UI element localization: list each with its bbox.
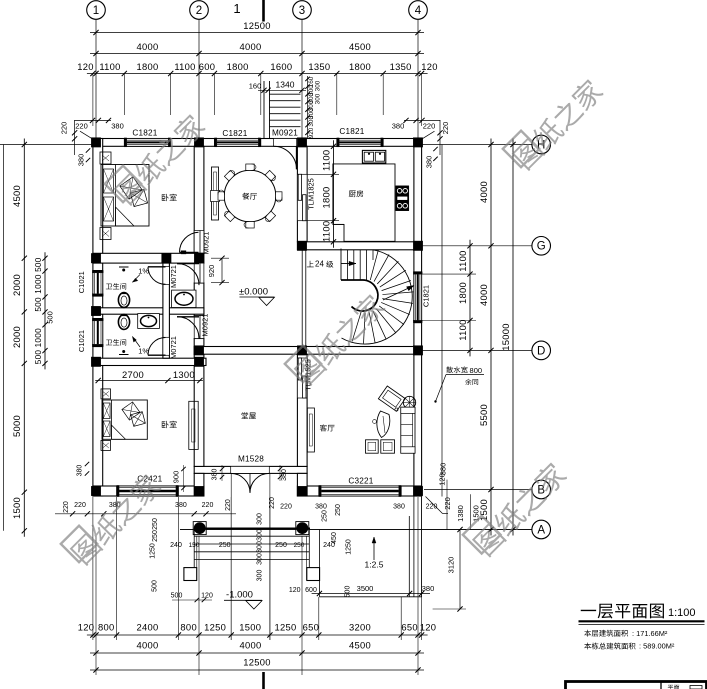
svg-text:1100: 1100 [174,61,195,72]
door M0721 bath2 [163,337,170,355]
stair break line [383,286,414,301]
title first floor plan [581,604,664,619]
svg-text:1600: 1600 [270,61,292,72]
window C1021 bath2 left [93,318,103,346]
svg-text:G: G [537,241,546,253]
svg-text:C1821: C1821 [422,285,431,307]
svg-text:300: 300 [257,541,264,553]
svg-text:1800: 1800 [349,61,371,72]
svg-text:380: 380 [77,465,84,477]
svg-text:220: 220 [423,121,436,130]
toilet bath2 [118,315,129,330]
svg-text:1100: 1100 [320,150,331,171]
kitchen sink [362,150,385,163]
dim row top detail [87,73,428,75]
bottom extension lines [95,536,97,675]
window C1821 dining top [214,139,260,147]
svg-text:4500: 4500 [11,185,22,207]
svg-text:250: 250 [335,504,342,516]
svg-text:220: 220 [443,497,452,510]
svg-text:300: 300 [257,513,264,525]
svg-text:120: 120 [201,592,213,599]
svg-text:120: 120 [420,622,437,633]
apron line right [441,145,443,497]
wall D hall/living top [194,347,421,355]
svg-text:1500: 1500 [239,622,261,633]
washbasin bath2 [138,314,160,329]
svg-text:300: 300 [257,553,264,565]
svg-text:300: 300 [308,116,315,127]
svg-text:1340: 1340 [276,80,295,90]
wall bath vertical partition [163,263,170,358]
right corner offset dims 380 220 [404,119,440,121]
svg-text:M1528: M1528 [238,455,264,464]
svg-text:4000: 4000 [136,640,158,651]
svg-text:2000: 2000 [11,274,22,296]
svg-text:300: 300 [257,570,264,582]
svg-text:1350: 1350 [308,61,330,72]
svg-text:3: 3 [299,5,305,17]
porch column bases [184,568,197,581]
footer table partial [566,682,707,689]
svg-text:240: 240 [170,542,182,549]
ramp arrow 1:2.5 [373,537,375,560]
sofa set living room [366,386,416,453]
svg-text:120: 120 [77,61,94,72]
window C1821 stair right [414,272,422,323]
right dim chain 15000 [512,139,514,536]
porch dims row 220 380 [55,513,236,515]
svg-text:450: 450 [331,532,338,544]
svg-text:C1021: C1021 [77,330,86,352]
svg-text:380: 380 [422,584,435,593]
svg-text:1250: 1250 [150,543,157,559]
wall axis3 stair hall left thin [301,250,303,347]
svg-text:1380: 1380 [456,505,465,522]
svg-text:4000: 4000 [136,41,158,52]
svg-text:650: 650 [303,622,320,633]
svg-text:380: 380 [212,469,219,481]
svg-text:380: 380 [77,154,86,167]
svg-text:1: 1 [93,5,99,17]
svg-text:12500: 12500 [243,20,271,31]
svg-text:220: 220 [426,503,438,510]
svg-text:1300: 1300 [173,369,195,380]
svg-text:150: 150 [189,542,200,549]
dim 2700 1300 bedroom2 [95,380,203,382]
section mark 1 bottom [262,672,265,689]
svg-text:500: 500 [46,311,55,324]
door M0921 corridor-hall lower [194,316,204,339]
grid line H extension left [0,144,93,146]
svg-text:15000: 15000 [500,323,511,351]
svg-text:M0921: M0921 [201,314,210,337]
door M0921 top terrace [274,139,297,147]
room label living [320,424,335,431]
svg-text:1100: 1100 [457,250,468,271]
svg-text:4500: 4500 [349,640,371,651]
toilet bath1 [118,293,129,308]
svg-text:4500: 4500 [349,41,371,52]
svg-text:-1.000: -1.000 [226,589,253,600]
svg-text:M0921: M0921 [272,129,298,138]
watermark 4 right-bottom [463,454,569,560]
svg-text:1100: 1100 [99,61,120,72]
svg-text:250: 250 [275,542,287,549]
wall axis3 hall/living [297,354,307,466]
svg-text:1500: 1500 [11,497,22,519]
svg-text:500: 500 [345,586,352,598]
floor drain bath2 [119,354,129,356]
svg-text:C1021: C1021 [77,271,86,293]
right dim chain 4000 4000 5500 1500 [490,139,492,536]
window C1821 kitchen top [337,139,383,147]
svg-text:300: 300 [257,529,264,541]
svg-text:1%: 1% [138,267,149,276]
svg-text:3200: 3200 [349,622,371,633]
room label bath1 [106,283,126,289]
svg-text:380: 380 [315,503,327,510]
wall axis2 corridor segment1 [194,283,204,316]
svg-text:220: 220 [59,122,68,135]
window C1021 bath1 left [93,270,103,296]
wall bottom bedroom2 side [93,486,204,496]
wall right exterior [414,139,422,497]
svg-text:1000: 1000 [34,328,43,348]
svg-text:M0921: M0921 [202,232,211,255]
svg-text:500: 500 [171,592,183,599]
svg-text:380: 380 [425,156,434,169]
svg-text:1: 1 [233,1,240,16]
svg-text:4000: 4000 [239,640,261,651]
door M0921 corridor-dining upper [194,263,204,283]
svg-text:C1821: C1821 [132,128,157,137]
svg-text:300: 300 [315,93,322,104]
window C3221 living bottom [319,486,401,496]
svg-text:2: 2 [196,5,202,17]
svg-text:C1821: C1821 [222,129,247,138]
wall recess side left [194,473,204,496]
wall kitchen bottom G [297,242,421,250]
floor drain bath1 [119,266,129,268]
svg-text:380: 380 [392,121,405,130]
left dim chain bath windows 500 1000 500 [44,252,46,369]
svg-text:3120: 3120 [447,557,456,574]
room label dining [242,193,257,200]
door M1528 entrance double [231,466,270,473]
svg-text:1800: 1800 [457,282,468,304]
wall hall front recessed [194,466,307,473]
svg-text:1250: 1250 [274,622,296,633]
grid axis circles top [95,20,97,139]
window C2421 bedroom2 bottom [117,486,179,496]
svg-text:D: D [537,345,545,357]
spiral staircase [341,249,413,345]
svg-text:500: 500 [34,297,43,312]
wall left exterior [93,139,103,497]
svg-text:1000: 1000 [34,274,43,294]
section mark 1 top [262,0,265,22]
wall axis2 hall left [194,354,204,466]
svg-text:2000: 2000 [11,326,22,348]
svg-text:1350: 1350 [390,61,412,72]
svg-text:220: 220 [280,503,292,510]
right dim 3120 terrace [459,530,461,610]
svg-text:220: 220 [441,122,450,135]
svg-text:4000: 4000 [478,284,489,306]
svg-text:220: 220 [269,497,276,509]
svg-text:5500: 5500 [478,404,489,426]
svg-text:1250: 1250 [346,539,353,555]
svg-text:250: 250 [152,518,159,530]
bottom dim row 4000 4000 4500 [90,652,424,654]
svg-text:250: 250 [152,530,159,542]
svg-text:C1821: C1821 [339,127,364,136]
svg-text:220: 220 [75,121,88,130]
terrace ramp right [318,530,320,597]
bed bedroom2 [101,389,147,451]
svg-text:160: 160 [249,82,262,91]
svg-text:3500: 3500 [357,584,374,593]
left dim chain 4500 2000 2000 5000 1500 [23,139,25,537]
watermark 3 center [285,286,387,388]
tv cabinet living [307,408,314,452]
svg-text:24: 24 [315,260,324,269]
room label bath2 [106,339,126,345]
svg-text:300: 300 [315,80,322,91]
svg-text:C3221: C3221 [348,477,373,486]
svg-text:120: 120 [78,622,95,633]
svg-text:920: 920 [207,265,216,278]
door M0921 bedroom1 (axis2) [194,231,204,254]
door M0721 bath1 [163,267,170,285]
svg-text:1250: 1250 [204,622,226,633]
svg-text:220: 220 [225,499,232,511]
svg-text:120: 120 [421,61,438,72]
svg-text:±0.000: ±0.000 [239,287,268,298]
wall axis3 dining/kitchen [297,146,307,242]
columns (construction) [91,138,101,148]
bed bedroom1 [100,152,149,240]
left corner offset dims 220 380 [74,119,111,121]
svg-text:380: 380 [111,121,124,130]
left dim chain outer 15000 [3,145,5,531]
svg-text:650: 650 [401,622,418,633]
svg-text:220: 220 [202,502,214,509]
svg-text:220: 220 [74,502,86,509]
svg-text:5000: 5000 [11,415,22,437]
room label kitchen [349,190,363,197]
svg-text:1%: 1% [138,347,149,356]
porch steps [180,529,532,531]
bottom dim row 12500 [90,669,424,671]
svg-text:: 589.00M²: : 589.00M² [639,642,675,651]
svg-text:1800: 1800 [320,186,331,208]
svg-text:1800: 1800 [136,61,158,72]
wall bottom living side [297,486,421,496]
svg-text:1800: 1800 [227,61,249,72]
dim 300 risers outdoor stair [307,76,309,146]
outdoor stair to terrace [263,81,265,139]
wall bedroom1 bottom [93,253,204,263]
wall axis2 bedroom1/dining [194,146,204,253]
bottom dim row detail [87,634,428,636]
svg-text:380: 380 [393,503,405,510]
wall axis2 segment D [194,339,204,355]
svg-text:600: 600 [305,587,317,594]
svg-text:600: 600 [199,61,216,72]
wall bath partition horizontal [93,308,204,314]
apron miter corner [426,497,443,514]
svg-text:920: 920 [308,127,315,138]
room label bedroom1 [162,194,177,201]
svg-text:1:2.5: 1:2.5 [365,560,384,570]
right dim chain windows 1100 1800 1100 [469,240,471,357]
svg-text:A: A [537,524,545,536]
svg-text:1100: 1100 [457,319,468,340]
grid axis circles right [422,144,532,146]
svg-text:380: 380 [175,502,187,509]
sideboard dining [212,167,219,220]
watermark 1 top-left [105,106,207,208]
svg-text:1:100: 1:100 [668,607,696,619]
stair label up 24 steps [307,261,314,268]
watermark 5 bottom-left [61,466,163,568]
door TLM1825 kitchen sliding [297,174,307,220]
svg-text:: 171.66M²: : 171.66M² [632,629,668,638]
svg-text:500: 500 [151,580,158,592]
svg-text:4000: 4000 [239,41,261,52]
kitchen stove [396,186,409,211]
area note this floor [584,630,628,637]
svg-text:M0721: M0721 [169,336,178,359]
svg-text:12500: 12500 [243,657,271,668]
dim extension stubs top [123,74,125,116]
room label bedroom2 [162,421,177,428]
wall bath2 bottom / bedroom2 top [93,358,206,365]
svg-text:800: 800 [470,366,483,375]
svg-text:250: 250 [322,510,329,522]
svg-text:900: 900 [172,471,181,484]
apron note leader [436,375,447,402]
dim row 12500 top [90,32,424,34]
svg-text:4000: 4000 [478,181,489,203]
kitchen dim 1100 1800 1100 [333,140,335,248]
svg-text:2700: 2700 [122,369,144,380]
wardrobe bedroom2 [189,401,198,449]
area note total [584,643,635,650]
dim 160 1340 outdoor stair [258,89,306,91]
svg-text:120: 120 [289,587,301,594]
door TLM1525 hall-living sliding [297,358,307,398]
dim 3500 380 terrace bottom [312,593,430,595]
svg-text:M0721: M0721 [169,265,178,288]
svg-text:2400: 2400 [136,622,158,633]
watermark 2 top-right [503,71,605,173]
apron note text [446,366,467,373]
porch columns round in square [193,522,206,535]
svg-text:220: 220 [63,501,70,513]
svg-text:TLM1825: TLM1825 [307,178,316,210]
wall top exterior [93,139,422,147]
svg-text:250: 250 [219,542,231,549]
dining table round with chairs [218,164,282,228]
window C1821 bedroom1 top [124,139,170,147]
washbasin corridor [172,290,196,307]
svg-text:800: 800 [98,622,115,633]
room label hall [242,412,256,419]
svg-text:1100: 1100 [320,221,331,242]
svg-text:4: 4 [415,5,422,17]
svg-text:500: 500 [34,257,43,272]
svg-text:800: 800 [180,622,197,633]
wall recess side right [297,473,307,496]
svg-text:250: 250 [294,542,305,549]
dim row 4000 4000 4500 top [90,53,424,55]
svg-text:500: 500 [34,350,43,365]
door jamb extension lines porch [230,474,232,640]
kitchen counter [333,164,395,241]
